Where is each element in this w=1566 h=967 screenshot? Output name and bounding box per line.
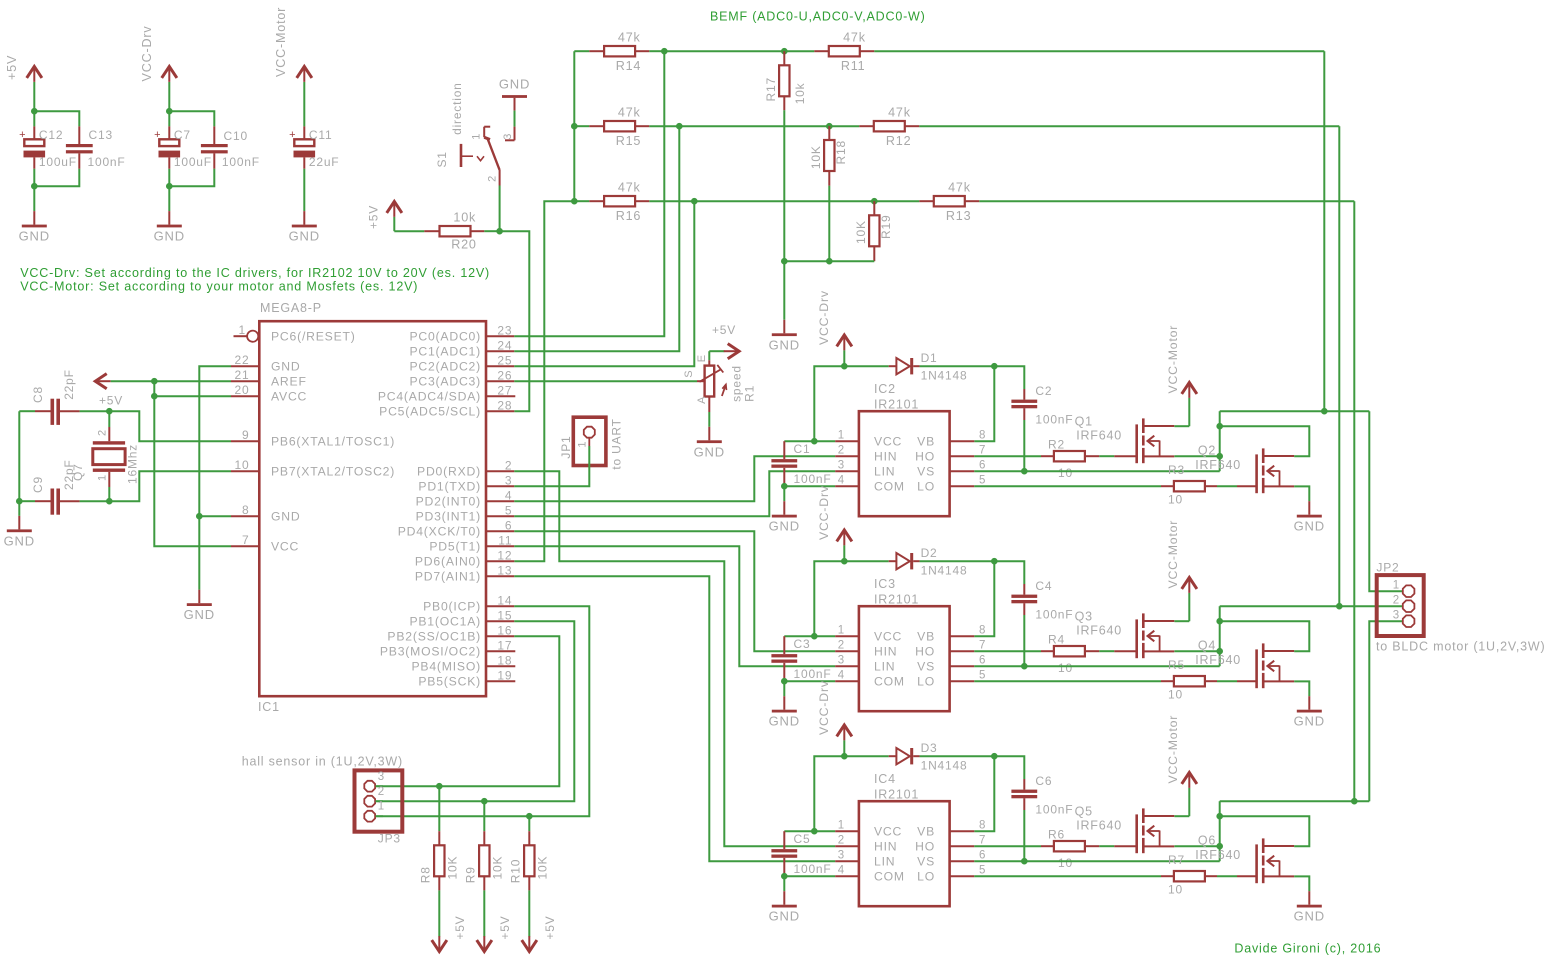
power flag +5V at pot [709,323,739,359]
svg-text:8: 8 [979,820,986,832]
svg-text:GND: GND [1294,714,1325,729]
resistor R12 47k [829,106,1339,148]
pin 17 PB3(MOSI/OC2) (IC1 right) [380,638,515,658]
svg-text:6: 6 [979,655,986,667]
pin 8 VB (IC3 right) [917,625,986,644]
svg-text:VCC: VCC [271,540,299,554]
wire PD5 to IC3 LIN [514,546,835,666]
svg-text:1: 1 [577,441,589,448]
resistor R15 47k [574,106,679,148]
wire R17 bottom to GND rail [783,110,785,319]
svg-text:COM: COM [874,675,905,689]
svg-text:100nF: 100nF [794,472,832,486]
pin 20 AVCC (IC1 left) [231,383,307,403]
svg-text:PC6(/RESET): PC6(/RESET) [271,330,356,344]
wire VB pin8 IC3 [974,561,994,636]
crystal Q7 16Mhz [71,411,140,501]
svg-text:IC4: IC4 [874,772,896,786]
node hall3 pullup junction [436,783,443,790]
pin 1 VCC (IC2 left) [835,430,902,449]
wire VS row IC4 [974,846,1219,861]
svg-text:D1: D1 [921,351,938,365]
svg-text:PB4(MISO): PB4(MISO) [411,660,481,674]
pin 13 PD7(AIN1) (IC1 right) [415,563,514,583]
svg-text:PD3(INT1): PD3(INT1) [416,510,481,524]
svg-text:16: 16 [497,623,512,637]
svg-text:IR2101: IR2101 [874,398,919,412]
svg-text:LO: LO [917,675,935,689]
ground below C11 [289,211,320,244]
svg-text:+: + [154,129,161,141]
svg-text:PD0(RXD): PD0(RXD) [417,465,481,479]
svg-text:VCC-Drv: VCC-Drv [817,485,831,540]
svg-text:IRF640: IRF640 [1195,848,1241,862]
svg-text:1: 1 [471,133,483,140]
svg-text:Q5: Q5 [1075,805,1093,819]
svg-text:1N4148: 1N4148 [921,759,968,773]
wire R20 node to PC5 pin 28 [500,231,530,411]
ground below R17 rail [769,320,800,353]
svg-text:16Mhz: 16Mhz [126,444,140,484]
svg-text:GND: GND [769,909,800,924]
svg-text:+5V: +5V [453,916,467,940]
power flag VCC-Motor at Q3 [1166,520,1197,621]
svg-text:IRF640: IRF640 [1076,624,1122,638]
node hall2 pullup junction [481,798,488,805]
svg-text:47k: 47k [618,181,641,195]
svg-text:R11: R11 [841,59,866,73]
svg-text:10K: 10K [535,856,549,880]
svg-text:R15: R15 [616,134,642,148]
wire PC0 to BEMF U divider [514,51,664,336]
svg-text:GND: GND [154,229,185,244]
resistor R4 10 gate high [974,632,1136,675]
svg-text:VCC-Motor: VCC-Motor [1166,715,1180,784]
svg-text:GND: GND [289,229,320,244]
pin 4 COM (IC2 left) [835,475,905,494]
svg-text:10: 10 [1168,688,1183,702]
pin 3 LIN (IC4 left) [835,850,895,869]
svg-text:JP1: JP1 [559,436,573,459]
power flag VCC-Motor at Q5 [1166,715,1197,816]
node GND junction top-left [31,183,38,190]
node VCC pin1 junction IC4 [811,828,818,835]
IC IC2 IR2101 body [859,382,950,516]
svg-text:10: 10 [1058,856,1073,870]
pin 7 HO (IC4 right) [915,835,986,854]
pin 15 PB1(OC1A) (IC1 right) [409,608,514,628]
pin 18 PB4(MISO) (IC1 right) [411,653,515,673]
svg-text:AVCC: AVCC [271,390,307,404]
svg-text:IR2101: IR2101 [874,593,919,607]
wire pot to ground [708,412,710,427]
svg-text:100nF: 100nF [1035,608,1073,622]
svg-text:VCC-Drv: Set according to the: VCC-Drv: Set according to the IC drivers… [20,266,490,280]
pin 1 PC6(/RESET) (IC1 left) [234,323,356,343]
svg-text:1: 1 [97,474,109,481]
connector JP2 to BLDC motor [1376,561,1545,654]
wire PD3 INT1 to IC2 LIN [514,471,835,516]
node +5V junction top [31,108,38,115]
wire PD4 to IC3 HIN [514,531,835,651]
svg-text:10K: 10K [809,145,823,169]
wire phase V to JP2 pin2 [1220,605,1403,607]
svg-text:10k: 10k [453,211,476,225]
capacitor C12 100uF [19,111,77,186]
node rail R17 [781,258,788,265]
svg-text:PB6(XTAL1/TOSC1): PB6(XTAL1/TOSC1) [271,435,395,449]
svg-text:1: 1 [378,801,385,813]
svg-text:4: 4 [838,670,845,682]
svg-text:+5V: +5V [712,323,736,337]
svg-text:S: S [683,370,695,378]
svg-text:GND: GND [19,229,50,244]
svg-text:VB: VB [917,630,935,644]
svg-text:PC4(ADC4/SDA): PC4(ADC4/SDA) [378,390,481,404]
svg-text:Q3: Q3 [1075,610,1093,624]
svg-text:7: 7 [242,533,249,547]
node R19 top [871,198,878,205]
node R18 top [826,123,833,130]
svg-text:HIN: HIN [874,645,897,659]
svg-text:PB0(ICP): PB0(ICP) [423,600,481,614]
node XTAL2 junction [106,498,113,505]
node phase B IC3 [1216,648,1223,655]
svg-text:IRF640: IRF640 [1076,429,1122,443]
power flag +5V at R20 [367,202,402,232]
svg-text:2: 2 [838,640,845,652]
svg-text:Q4: Q4 [1198,639,1216,653]
svg-text:VCC: VCC [874,630,902,644]
node R16 star [571,198,578,205]
svg-text:LIN: LIN [874,465,895,479]
ground below pot [694,427,725,460]
wire PB0 to hall 1 [375,606,589,816]
wire PC1 to BEMF V divider [514,126,679,351]
svg-text:IR2101: IR2101 [874,788,919,802]
svg-text:HIN: HIN [874,450,897,464]
svg-text:7: 7 [979,835,986,847]
wire COM row IC4 [784,875,835,877]
wire Q6 source to ground [1294,876,1309,891]
svg-text:22pF: 22pF [62,459,76,490]
node VS bootstrap junction C2 [1021,468,1028,475]
svg-text:VCC: VCC [874,825,902,839]
node AVCC junction [151,393,158,400]
svg-text:1: 1 [838,820,845,832]
svg-text:LO: LO [917,480,935,494]
pin 8 GND (IC1 left) [231,503,300,523]
node R15 star [571,123,578,130]
svg-text:1: 1 [838,430,845,442]
svg-text:3: 3 [502,133,514,140]
svg-text:13: 13 [497,563,512,577]
node VCC-Drv junction IC4 [841,753,848,760]
svg-text:6: 6 [979,460,986,472]
svg-text:8: 8 [979,430,986,442]
power flag +5V at AREF [95,374,154,408]
svg-text:R3: R3 [1168,463,1185,477]
svg-text:6: 6 [505,518,512,532]
wire phase column IC4 [1219,801,1221,846]
node R20/S1 junction [496,228,503,235]
pin 25 PC2(ADC2) (IC1 right) [409,353,514,373]
svg-text:+5V: +5V [367,205,381,229]
svg-text:14: 14 [497,593,512,607]
pin 12 PD6(AIN0) (IC1 right) [415,548,514,568]
wire Q2 source to ground [1294,486,1309,501]
svg-text:3: 3 [378,771,385,783]
resistor R14 47k [574,31,664,73]
svg-text:R1: R1 [742,385,756,402]
node VCC-Drv junction IC2 [841,363,848,370]
wire PD2 INT0 to IC2 HIN [514,456,835,501]
svg-text:100uF: 100uF [174,155,212,169]
svg-text:VS: VS [917,660,935,674]
svg-text:1N4148: 1N4148 [921,564,968,578]
svg-text:27: 27 [497,383,512,397]
ground at Q2 source [1294,501,1325,534]
IC IC4 IR2101 body [859,772,950,906]
wire VB pin8 IC2 [974,366,994,441]
ground below C3 [769,681,800,729]
svg-text:PD2(INT0): PD2(INT0) [416,495,481,509]
node VCC pin1 junction IC2 [811,438,818,445]
pin 8 VB (IC2 right) [917,430,986,449]
svg-text:GND: GND [1294,909,1325,924]
power flag VCC-Drv [140,26,177,112]
svg-text:4: 4 [838,475,845,487]
pin 5 LO (IC2 right) [917,475,986,494]
resistor R10 10K pullup [508,816,549,936]
wire S1 pin2 to R20 node [499,186,501,232]
wire VCC-Drv to IC4 VCC pin1 [814,756,844,831]
svg-text:S1: S1 [435,151,449,167]
capacitor C3 100nF decoupling [771,636,831,681]
pin 14 PB0(ICP) (IC1 right) [423,593,514,613]
connector JP1 to UART [559,417,624,469]
svg-text:R19: R19 [879,215,893,239]
svg-text:A: A [696,396,708,404]
power flag VCC-Motor at Q1 [1166,325,1197,426]
transistor Q5 IRF640 high side [1075,805,1175,854]
wire phase column IC3 [1219,606,1221,651]
svg-text:PD6(AIN0): PD6(AIN0) [415,555,481,569]
capacitor C7 100uF [154,111,212,186]
node phase W column junction [1351,798,1358,805]
resistor R7 10 gate low [974,853,1256,897]
wire phase column IC2 [1219,411,1221,456]
svg-text:HO: HO [915,450,935,464]
node phase V column junction [1336,603,1343,610]
svg-text:7: 7 [979,445,986,457]
svg-text:R17: R17 [764,77,778,101]
node VS bootstrap junction C6 [1021,858,1028,865]
pin 2 PD0(RXD) (IC1 right) [417,458,514,478]
wire PD7 AIN1 to IC4 LIN [514,576,835,861]
svg-text:C13: C13 [89,128,113,142]
node COM junction IC3 [781,678,788,685]
wire row V to R12 [679,125,829,127]
svg-text:100nF: 100nF [222,155,260,169]
svg-text:10: 10 [1168,883,1183,897]
node R16 output / PC2 column [691,198,698,205]
pin 23 PC0(ADC0) (IC1 right) [409,323,514,343]
svg-text:VS: VS [917,855,935,869]
wire row W to R13 [694,200,874,202]
svg-text:8: 8 [242,503,249,517]
svg-text:E: E [696,354,708,362]
svg-text:GND: GND [694,444,725,459]
svg-text:IRF640: IRF640 [1195,653,1241,667]
switch S1 direction [435,82,514,185]
svg-text:+5V: +5V [498,916,512,940]
svg-text:R16: R16 [616,209,642,223]
pin 7 VCC (IC1 left) [231,533,299,553]
svg-text:5: 5 [979,865,986,877]
svg-text:10k: 10k [793,82,807,104]
svg-text:VCC-Motor: VCC-Motor [1166,325,1180,394]
transistor Q1 IRF640 high side [1075,415,1175,464]
node hall1 pullup junction [526,813,533,820]
svg-text:VCC-Motor: VCC-Motor [274,7,288,77]
svg-text:IRF640: IRF640 [1195,458,1241,472]
svg-text:6: 6 [979,850,986,862]
potentiometer R1 speed [683,351,756,412]
svg-text:LIN: LIN [874,660,895,674]
ground above switch S1 [499,77,530,127]
diode D3 1N4148 [844,741,994,773]
resistor R6 10 gate high [974,827,1136,870]
pin 11 PD5(T1) (IC1 right) [429,533,514,553]
svg-text:4: 4 [838,865,845,877]
pin 27 PC4(ADC4/SDA) (IC1 right) [378,383,515,403]
svg-text:100nF: 100nF [794,667,832,681]
svg-text:GND: GND [271,360,300,374]
capacitor C4 100nF bootstrap [994,561,1073,666]
wire AVCC/VCC rail [154,381,231,546]
svg-text:LIN: LIN [874,855,895,869]
svg-text:GND: GND [184,607,215,622]
svg-text:25: 25 [497,353,512,367]
svg-text:Q1: Q1 [1075,415,1093,429]
pin 6 VS (IC4 right) [917,850,986,869]
node phase A IC4 [1216,813,1223,820]
pin 6 VS (IC2 right) [917,460,986,479]
svg-text:BEMF (ADC0-U,ADC0-V,ADC0-W): BEMF (ADC0-U,ADC0-V,ADC0-W) [710,10,926,24]
svg-text:15: 15 [497,608,512,622]
svg-text:R18: R18 [834,140,848,164]
svg-text:C11: C11 [309,128,333,142]
svg-text:10K: 10K [490,856,504,880]
resistor R9 10K pullup [463,801,504,936]
pin 21 AREF (IC1 left) [231,368,307,388]
ground crystal caps [4,516,35,549]
svg-text:VCC-Drv: VCC-Drv [817,290,831,345]
svg-text:C7: C7 [174,128,191,142]
wire XTAL2 to pin10 [109,471,231,501]
wire PC3 to speed pot wiper [514,380,697,382]
pin 3 LIN (IC2 left) [835,460,895,479]
pin 2 HIN (IC4 left) [835,835,897,854]
svg-text:HO: HO [915,840,935,854]
wire AVCC row [154,395,231,397]
svg-text:IC2: IC2 [874,382,896,396]
svg-text:R8: R8 [418,866,432,883]
svg-text:PC2(ADC2): PC2(ADC2) [409,360,481,374]
svg-text:GND: GND [769,714,800,729]
svg-text:MEGA8-P: MEGA8-P [260,301,322,315]
node junction below C7 [166,183,173,190]
wire Q6 drain to phase node [1220,816,1310,846]
wire phase U to JP2 pin1 [1220,411,1403,591]
wire Q4 drain to phase node [1220,621,1310,651]
svg-text:22uF: 22uF [309,155,340,169]
wire Q2 drain to phase node [1220,426,1310,456]
svg-text:3: 3 [838,850,845,862]
svg-text:C10: C10 [224,129,248,143]
svg-text:1: 1 [239,323,246,337]
node VS bootstrap junction C4 [1021,663,1028,670]
wire COM row IC3 [784,680,835,682]
resistor R11 47k [814,31,1324,73]
svg-text:VB: VB [917,825,935,839]
wire GND column pin22-pin8 [199,366,231,590]
svg-text:R4: R4 [1048,632,1065,646]
wire VS row IC3 [974,651,1219,666]
svg-text:PC5(ADC5/SCL): PC5(ADC5/SCL) [379,405,481,419]
wire PC2 to BEMF W divider [514,201,694,366]
svg-text:R6: R6 [1048,827,1065,841]
resistor R5 10 gate low [974,658,1256,702]
ground below C12 [19,186,50,243]
node phase B IC2 [1216,453,1223,460]
svg-text:IC3: IC3 [874,577,896,591]
svg-text:R13: R13 [946,209,972,223]
power flag +5V (top-left) [5,55,42,111]
svg-text:VCC-Drv: VCC-Drv [140,26,154,82]
svg-text:21: 21 [235,368,250,382]
svg-text:8: 8 [979,625,986,637]
label hall sensor in [242,755,403,769]
diode D2 1N4148 [844,546,994,578]
svg-text:PC3(ADC3): PC3(ADC3) [409,375,481,389]
transistor Q6 IRF640 low side [1195,834,1294,884]
svg-text:PB2(SS/OC1B): PB2(SS/OC1B) [387,630,481,644]
svg-text:GND: GND [4,533,35,548]
svg-text:Q2: Q2 [1198,444,1216,458]
svg-text:3: 3 [838,460,845,472]
svg-text:JP2: JP2 [1376,561,1399,575]
transistor Q2 IRF640 low side [1195,444,1294,494]
pin 2 HIN (IC3 left) [835,640,897,659]
transistor Q4 IRF640 low side [1195,639,1294,689]
capacitor C1 100nF decoupling [771,441,831,486]
svg-text:to BLDC motor (1U,2V,3W): to BLDC motor (1U,2V,3W) [1376,640,1545,654]
svg-text:18: 18 [497,653,512,667]
svg-text:17: 17 [497,638,512,652]
resistor R3 10 gate low [974,463,1256,507]
svg-text:AREF: AREF [271,375,307,389]
svg-text:R10: R10 [508,859,522,883]
svg-text:19: 19 [497,668,512,682]
pin 7 HO (IC2 right) [915,445,986,464]
wire AREF row [154,380,231,382]
svg-text:C8: C8 [31,386,45,403]
svg-text:C1: C1 [794,442,811,456]
wire PB2 to hall 3 [375,636,559,786]
resistor R2 10 gate high [974,437,1136,480]
